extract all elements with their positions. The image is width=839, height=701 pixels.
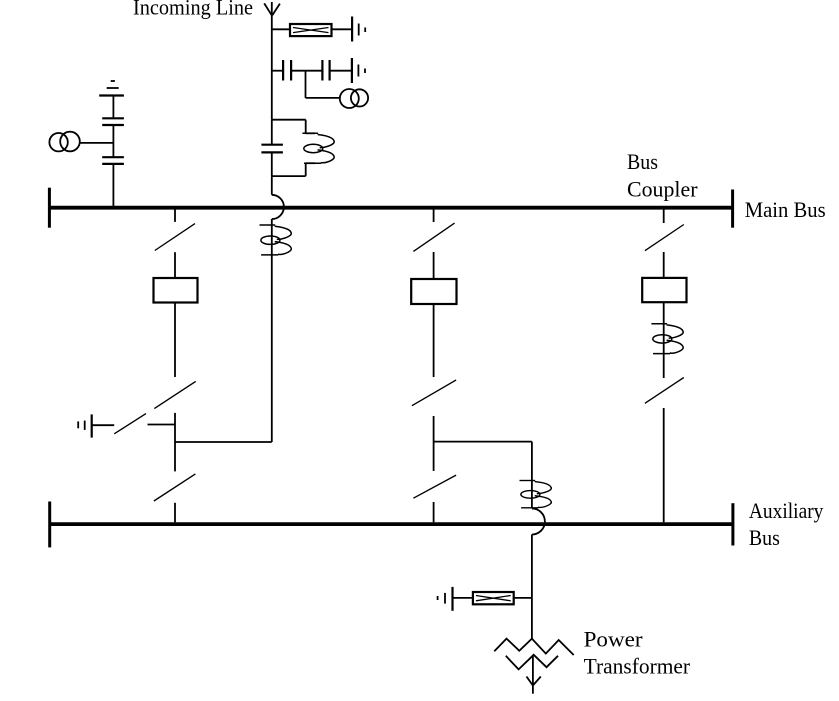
wire transformer column top xyxy=(531,442,533,508)
wire VT horizontal to circles xyxy=(80,142,114,144)
circuit breaker CB3 (rectangle) xyxy=(642,278,686,302)
wire branch 2 horizontal xyxy=(272,70,352,72)
reactor L2 below hop (coil) xyxy=(260,225,292,255)
wire VT column lower xyxy=(112,164,114,206)
wire xyxy=(174,303,176,378)
inductor L1 in wave trap (coil) xyxy=(302,133,334,163)
label Power Transformer xyxy=(584,627,691,679)
disconnect switch S6 xyxy=(412,380,456,406)
voltage transformer T2 (two circles) xyxy=(49,132,79,152)
wire junction horizontal left xyxy=(175,441,272,443)
svg-text:Transformer: Transformer xyxy=(584,653,691,678)
wire hop over auxiliary bus xyxy=(532,509,545,535)
capacitor C4 on VT column xyxy=(102,157,124,164)
wire VT column middle xyxy=(112,125,114,157)
svg-text:Auxiliary: Auxiliary xyxy=(749,498,824,523)
svg-text:Bus: Bus xyxy=(627,149,658,174)
disconnect switch S1 xyxy=(155,224,195,251)
disconnect switch S4 xyxy=(154,474,196,501)
feeder 1 stub from main bus xyxy=(174,210,176,222)
label Auxiliary Bus xyxy=(749,498,824,550)
power transformer winding upper (zigzag) xyxy=(494,639,573,655)
power transformer winding lower (zigzag) xyxy=(506,655,558,670)
circuit breaker CB1 (rectangle) xyxy=(154,278,198,303)
wire CVT drop xyxy=(306,71,340,98)
wire branch 1 to earth xyxy=(332,28,353,30)
wire xyxy=(663,302,665,378)
disconnect switch S7 xyxy=(413,475,456,498)
main bus right end bar xyxy=(731,190,734,228)
voltage transformer T1 (two circles) xyxy=(340,89,368,108)
label Bus Coupler xyxy=(627,149,698,202)
ground (left-pointing) on transformer fuse branch xyxy=(438,587,453,611)
auxiliary bus xyxy=(50,522,733,526)
wire xyxy=(433,416,435,471)
auxiliary bus right end bar xyxy=(731,503,734,545)
wire incoming to bus hop xyxy=(271,176,273,195)
wire xyxy=(433,252,435,279)
wave trap loop wires xyxy=(272,120,306,176)
wire xyxy=(174,252,176,278)
disconnect switch S9 xyxy=(645,378,684,404)
main bus left end bar xyxy=(48,188,51,228)
wire junction horizontal right xyxy=(434,441,532,443)
main bus xyxy=(49,206,732,210)
reactor L3 (coil) xyxy=(651,324,683,354)
disconnect switch S8 xyxy=(645,225,684,251)
capacitor C5 in wave trap xyxy=(261,145,283,153)
auxiliary bus left end bar xyxy=(48,502,51,548)
wire xyxy=(663,252,665,278)
incoming line arrow xyxy=(264,3,280,15)
wire VT column upper xyxy=(112,96,114,119)
wire incoming vertical upper xyxy=(271,2,273,120)
wire fuse branch right xyxy=(514,597,532,599)
bus coupler stub from main bus xyxy=(663,210,665,224)
capacitor C2 on branch 2 xyxy=(322,60,329,81)
svg-text:Incoming Line: Incoming Line xyxy=(133,0,253,20)
ground (left-pointing) for earthing switch xyxy=(78,414,92,437)
wire fuse branch left xyxy=(453,597,473,599)
svg-text:Bus: Bus xyxy=(749,525,780,550)
disconnect switch S5 xyxy=(413,223,454,251)
wire xyxy=(433,502,435,522)
wire transformer column middle xyxy=(531,535,533,639)
svg-text:Main Bus: Main Bus xyxy=(745,197,826,222)
wire xyxy=(663,408,665,522)
capacitor C1 on branch 2 xyxy=(283,60,291,81)
svg-text:Power: Power xyxy=(584,627,644,652)
circuit breaker CB2 (rectangle) xyxy=(411,279,456,304)
power transformer arrow xyxy=(527,655,541,694)
wire xyxy=(433,304,435,377)
line trap F2 (rectangle with X) xyxy=(473,592,514,604)
wire xyxy=(174,503,176,523)
wire incoming long vertical xyxy=(271,219,273,442)
reactor L4 (coil) xyxy=(520,481,552,508)
wire hop over main bus xyxy=(272,195,284,219)
line trap F1 (rectangle with X) xyxy=(290,24,332,36)
feeder 2 stub from main bus xyxy=(433,210,435,223)
ground (right-pointing) on branch 2 xyxy=(352,58,365,83)
wire earthing branch xyxy=(92,424,175,427)
wire branch 1 horizontal xyxy=(272,28,290,30)
capacitor C3 on VT column xyxy=(102,118,124,125)
earthing switch S3 xyxy=(114,414,146,434)
ground (right-pointing) on branch 1 xyxy=(352,17,365,42)
disconnect switch S2 xyxy=(154,381,195,408)
wire xyxy=(174,413,176,472)
svg-text:Coupler: Coupler xyxy=(627,177,698,202)
ground (up-pointing) above VT column xyxy=(99,81,124,96)
